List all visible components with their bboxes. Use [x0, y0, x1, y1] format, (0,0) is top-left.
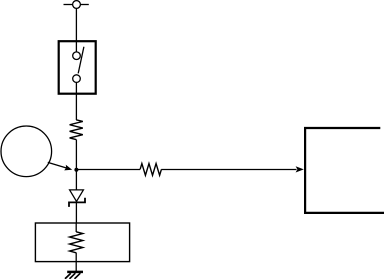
ground	[65, 272, 83, 279]
pointer arrow from circle to junction	[48, 162, 72, 170]
resistor box	[35, 223, 129, 262]
node junction	[74, 168, 78, 172]
wire R1 to junction	[75, 140, 77, 170]
wire box top to contact	[75, 42, 77, 52]
resistor R1	[70, 120, 83, 140]
callout circle	[1, 126, 52, 177]
resistor R3	[70, 232, 83, 253]
block (right, clipped)	[305, 128, 384, 213]
wire R2 to block with arrowhead	[161, 166, 304, 172]
switch S1	[73, 47, 84, 83]
wire junction to R2	[76, 169, 140, 171]
wire junction to zener	[75, 170, 77, 190]
switch box enclosure	[59, 41, 96, 93]
wire contact to resistor R1	[75, 82, 77, 120]
wire terminal to switch box	[75, 8, 77, 41]
wire R3 to ground	[75, 253, 77, 272]
terminal T1	[64, 1, 89, 9]
wire zener to resistor box	[75, 202, 77, 223]
zener diode D1	[69, 190, 85, 207]
resistor R2	[140, 164, 161, 176]
wire box top to R3	[75, 223, 77, 232]
